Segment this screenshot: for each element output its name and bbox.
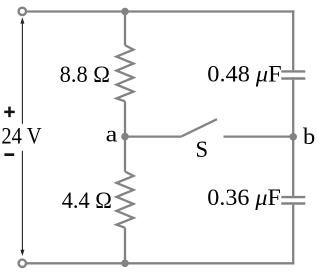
svg-text:S: S bbox=[196, 137, 209, 163]
terminal: source + (top-left open circle) bbox=[19, 8, 26, 15]
svg-text:4.4 Ω: 4.4 Ω bbox=[62, 188, 112, 214]
node b junction dot bbox=[289, 133, 297, 141]
wire: right branch lower (C2 to bottom wire) bbox=[292, 205, 294, 265]
svg-text:a: a bbox=[106, 122, 118, 148]
svg-text:b: b bbox=[303, 124, 315, 150]
label: + polarity of source bbox=[4, 107, 15, 118]
junction: top of middle branch bbox=[121, 8, 129, 16]
wire: middle branch from R2 down to bottom wire bbox=[124, 228, 126, 264]
svg-text:0.48 μF: 0.48 μF bbox=[207, 61, 281, 87]
voltage source V1 arrow lower line bbox=[21, 151, 23, 253]
junction: bottom of middle branch bbox=[121, 260, 129, 268]
wire: bottom horizontal from source - terminal to bottom-right corner bbox=[27, 262, 295, 264]
wire: switch lead from open contact to node b bbox=[224, 135, 294, 137]
terminal: source - (bottom-left open circle) bbox=[19, 260, 26, 267]
capacitor C1 0.48 uF plates bbox=[281, 71, 305, 78]
resistor R2 4.4 ohm zigzag bbox=[117, 172, 134, 228]
wire: right branch upper (top wire down to capacitor C1) bbox=[292, 10, 294, 70]
svg-text:0.36 μF: 0.36 μF bbox=[207, 185, 281, 211]
svg-text:8.8 Ω: 8.8 Ω bbox=[60, 62, 110, 88]
capacitor C2 0.36 uF plates bbox=[281, 197, 305, 203]
svg-text:24 V: 24 V bbox=[1, 124, 41, 150]
wire: top horizontal from source + terminal to top-right corner bbox=[27, 10, 295, 12]
wire: middle branch from node a down to resistor R2 bbox=[124, 137, 126, 172]
label: - polarity of source bbox=[4, 153, 14, 156]
resistor R1 8.8 ohm zigzag bbox=[117, 45, 134, 101]
wire: switch lead from node a to switch hinge bbox=[125, 135, 181, 137]
voltage source V1 24V arrow upper line bbox=[21, 22, 23, 124]
switch S blade (open, angled up) bbox=[181, 119, 217, 136]
wire: middle branch from R1 down to node a bbox=[124, 101, 126, 136]
wire: right branch middle (C1 to node b to C2) bbox=[292, 80, 294, 196]
node a junction dot bbox=[121, 133, 129, 141]
voltage source arrow head down bbox=[20, 250, 24, 256]
wire: middle branch from top wire down to resistor R1 bbox=[124, 12, 126, 46]
voltage source arrow head up bbox=[20, 17, 24, 23]
